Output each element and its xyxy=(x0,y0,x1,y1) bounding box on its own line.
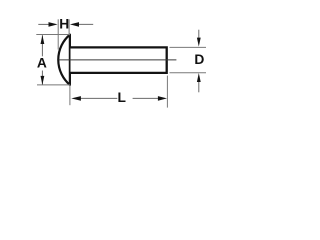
dimension H: left leader line xyxy=(38,23,50,25)
dimension D: bottom extension line xyxy=(170,72,207,74)
dimension D: top leader line xyxy=(198,30,200,39)
dimension H: left extension line xyxy=(57,19,59,49)
dimension H: right leader line xyxy=(75,23,93,25)
dimension A: top arrowhead (points up) xyxy=(41,35,45,44)
rivet head base line xyxy=(69,34,71,85)
dimension D: bottom arrowhead (points up) xyxy=(197,73,201,82)
dimension L: right dimension line xyxy=(133,97,159,99)
dimension H: left arrowhead (points right) xyxy=(49,22,58,27)
svg-text:H: H xyxy=(59,17,69,32)
dimension L: right arrowhead (points right) xyxy=(158,96,167,101)
dimension L: left extension line xyxy=(69,85,71,105)
dimension A: bottom arrowhead (points down) xyxy=(41,76,45,85)
dimension A: bottom tick line xyxy=(37,84,70,86)
centerline xyxy=(59,59,177,61)
dimension A: upper dimension line xyxy=(41,35,43,56)
dimension L: left arrowhead (points left) xyxy=(71,96,81,101)
dimension D: top arrowhead (points down) xyxy=(197,38,201,47)
svg-text:L: L xyxy=(117,90,125,105)
rivet shank xyxy=(71,47,167,73)
svg-text:A: A xyxy=(37,55,47,70)
dimension L: right extension line xyxy=(166,76,168,108)
dimension A: top tick line xyxy=(36,34,70,36)
rivet head (dome outline) xyxy=(58,35,70,85)
dimension A: lower dimension line xyxy=(41,71,43,85)
dimension D: bottom leader line xyxy=(198,82,200,93)
dimension L: left dimension line xyxy=(80,97,117,99)
dimension H: right extension line xyxy=(68,19,70,35)
dimension H: right arrowhead (points left) xyxy=(70,22,79,27)
svg-text:D: D xyxy=(194,52,204,67)
dimension D: top extension line xyxy=(170,46,207,48)
